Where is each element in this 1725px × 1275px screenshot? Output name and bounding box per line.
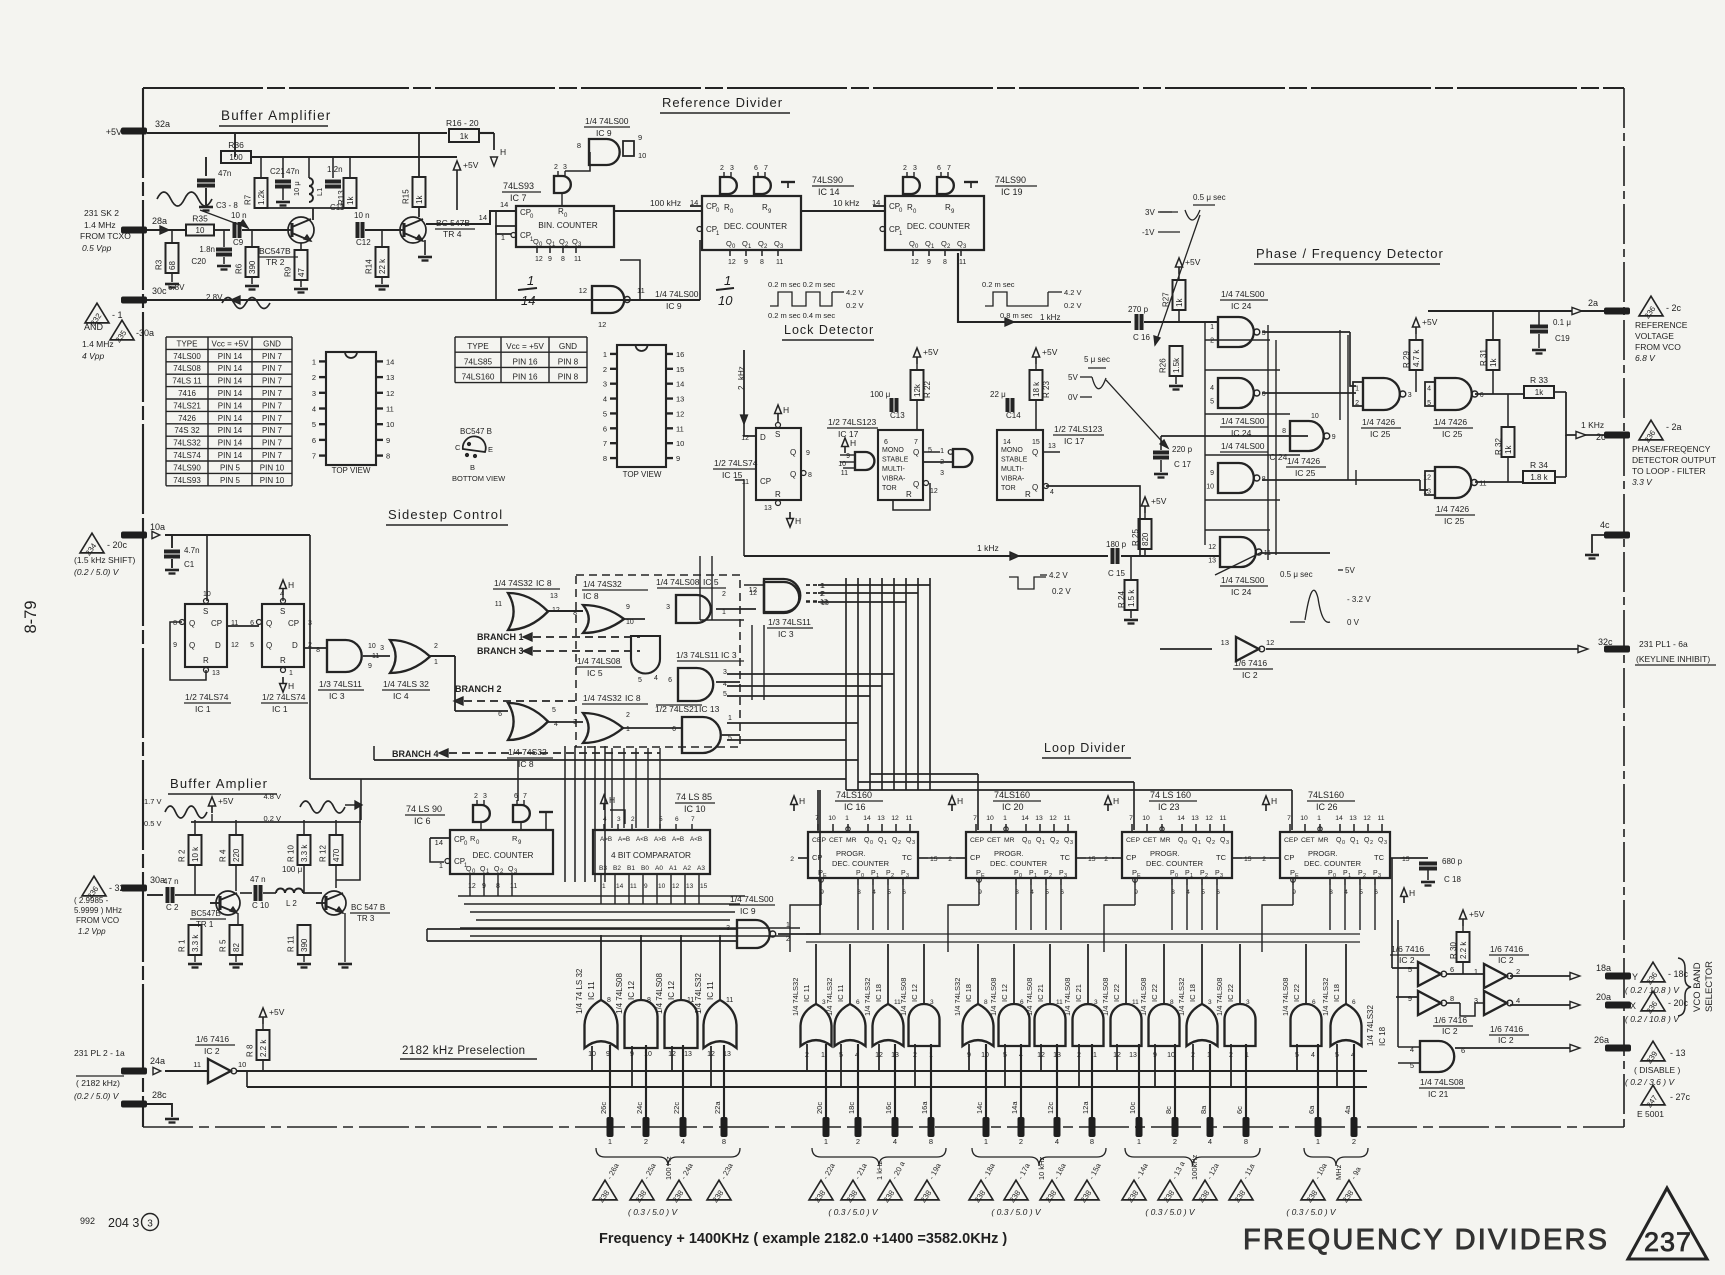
svg-text:IC 8: IC 8 (536, 578, 552, 588)
svg-text:( 0.3 / 5.0 ) V: ( 0.3 / 5.0 ) V (991, 1207, 1041, 1217)
svg-text:PIN 7: PIN 7 (262, 401, 283, 410)
svg-text:11: 11 (637, 286, 645, 295)
svg-text:BRANCH 1: BRANCH 1 (477, 632, 524, 642)
svg-text:180 p: 180 p (1106, 540, 1127, 549)
svg-text:B0: B0 (641, 865, 649, 872)
svg-text:0.5 V: 0.5 V (144, 819, 162, 828)
svg-text:10: 10 (658, 883, 666, 890)
svg-text:Q: Q (913, 480, 919, 489)
svg-text:10 n: 10 n (231, 211, 247, 220)
svg-text:5: 5 (603, 409, 607, 418)
svg-text:8: 8 (1090, 1137, 1094, 1146)
svg-text:VIBRA-: VIBRA- (1001, 476, 1025, 483)
svg-text:A2: A2 (683, 865, 691, 872)
svg-text:TC: TC (1060, 853, 1071, 862)
svg-text:8: 8 (1450, 994, 1454, 1003)
svg-text:7: 7 (914, 439, 918, 446)
svg-text:PIN 5: PIN 5 (220, 463, 241, 472)
svg-text:PIN 14: PIN 14 (218, 401, 243, 410)
svg-text:5.9999 ) MHz: 5.9999 ) MHz (74, 906, 122, 915)
svg-text:(0.2 / 5.0) V: (0.2 / 5.0) V (74, 567, 120, 577)
svg-text:1/6 7416: 1/6 7416 (1391, 944, 1424, 954)
svg-text:15: 15 (1244, 856, 1252, 863)
svg-text:PROGR.: PROGR. (1150, 849, 1180, 858)
svg-text:6: 6 (1262, 391, 1266, 398)
svg-text:74LS160: 74LS160 (462, 373, 495, 382)
svg-text:SELECTOR: SELECTOR (1704, 961, 1715, 1012)
svg-text:PIN 8: PIN 8 (558, 373, 579, 382)
svg-text:8-79: 8-79 (22, 600, 40, 633)
svg-text:74LS160: 74LS160 (1308, 790, 1344, 800)
svg-text:26c: 26c (599, 1102, 608, 1114)
svg-text:BRANCH 4: BRANCH 4 (392, 749, 439, 759)
svg-text:PIN 5: PIN 5 (220, 476, 241, 485)
svg-text:Sidestep Control: Sidestep Control (388, 507, 503, 522)
svg-text:74LS 11: 74LS 11 (172, 377, 202, 386)
svg-text:1: 1 (940, 448, 944, 455)
svg-text:IC 22: IC 22 (1226, 984, 1235, 1002)
svg-text:IC 8: IC 8 (625, 693, 641, 703)
svg-text:IC 11: IC 11 (706, 981, 715, 1000)
svg-text:5: 5 (728, 735, 732, 742)
svg-text:1.4 MHz: 1.4 MHz (82, 339, 114, 349)
svg-text:9: 9 (644, 883, 648, 890)
svg-text:13: 13 (550, 593, 558, 600)
svg-text:11: 11 (776, 259, 783, 266)
svg-text:12: 12 (728, 259, 736, 266)
svg-text:11: 11 (676, 424, 684, 433)
svg-text:11: 11 (386, 405, 394, 414)
svg-text:R 25: R 25 (1131, 529, 1140, 546)
svg-text:Q: Q (1032, 483, 1038, 492)
svg-text:CP: CP (1284, 853, 1294, 862)
svg-text:10: 10 (386, 420, 394, 429)
svg-text:220: 220 (232, 848, 241, 862)
svg-text:1/4 74LS32: 1/4 74LS32 (863, 978, 872, 1016)
svg-text:PIN 14: PIN 14 (218, 414, 243, 423)
svg-text:12: 12 (1049, 815, 1057, 822)
svg-text:7: 7 (312, 452, 316, 461)
svg-text:1.8n: 1.8n (199, 245, 215, 254)
svg-text:PIN 8: PIN 8 (558, 357, 579, 366)
svg-text:PROGR.: PROGR. (1308, 849, 1338, 858)
svg-text:82: 82 (232, 943, 241, 952)
svg-text:18c: 18c (847, 1102, 856, 1114)
svg-text:R16 - 20: R16 - 20 (446, 118, 479, 128)
svg-text:TR 3: TR 3 (357, 914, 375, 923)
svg-text:3: 3 (1220, 873, 1223, 879)
svg-text:Q: Q (266, 641, 272, 650)
svg-text:1: 1 (1093, 1052, 1097, 1059)
svg-text:STABLE: STABLE (882, 457, 909, 464)
svg-text:2: 2 (644, 1137, 648, 1146)
svg-text:8c: 8c (1164, 1106, 1173, 1114)
svg-text:PIN 7: PIN 7 (262, 364, 283, 373)
svg-text:0: 0 (861, 873, 864, 879)
svg-text:1: 1 (602, 883, 606, 890)
svg-text:Lock Detector: Lock Detector (784, 323, 874, 337)
svg-text:11: 11 (959, 259, 966, 266)
svg-text:IC 12: IC 12 (667, 980, 676, 1000)
svg-text:R: R (1025, 490, 1031, 499)
svg-text:5: 5 (723, 691, 727, 698)
svg-text:CEP: CEP (812, 837, 826, 844)
svg-text:A<B: A<B (690, 836, 702, 843)
svg-text:4.2 V: 4.2 V (1049, 571, 1068, 580)
svg-text:28a: 28a (152, 216, 167, 226)
svg-text:2: 2 (626, 712, 630, 719)
svg-text:1/4 74LS00: 1/4 74LS00 (1221, 575, 1265, 585)
svg-text:( 2.9985 -: ( 2.9985 - (74, 896, 109, 905)
svg-text:470: 470 (332, 848, 341, 862)
svg-text:9: 9 (173, 642, 177, 649)
svg-text:CP: CP (288, 619, 299, 628)
svg-text:4: 4 (1050, 489, 1054, 496)
svg-text:Buffer Amplifier: Buffer Amplifier (221, 108, 332, 123)
svg-text:0: 0 (1333, 873, 1336, 879)
svg-text:9: 9 (1332, 434, 1336, 441)
svg-text:3: 3 (906, 873, 909, 879)
svg-text:7: 7 (947, 165, 951, 172)
svg-text:14: 14 (676, 380, 684, 389)
svg-text:R 22: R 22 (923, 381, 932, 398)
svg-text:1: 1 (821, 583, 825, 590)
svg-text:A>B: A>B (600, 836, 612, 843)
svg-text:3: 3 (1064, 873, 1067, 879)
svg-text:H: H (1271, 796, 1277, 806)
svg-text:CEP: CEP (1284, 837, 1298, 844)
svg-text:12: 12 (676, 409, 684, 418)
svg-text:MONO: MONO (1001, 447, 1023, 454)
svg-text:2: 2 (1210, 338, 1214, 345)
svg-text:74LS90: 74LS90 (812, 175, 843, 185)
svg-text:1: 1 (1316, 1137, 1320, 1146)
svg-text:2: 2 (891, 873, 894, 879)
svg-text:-30a: -30a (136, 328, 154, 338)
svg-text:11: 11 (193, 1060, 201, 1069)
svg-text:1/4 74LS08: 1/4 74LS08 (1025, 978, 1034, 1016)
svg-text:PIN 14: PIN 14 (218, 352, 243, 361)
svg-text:C20: C20 (191, 257, 206, 266)
svg-text:22c: 22c (672, 1102, 681, 1114)
svg-text:S: S (775, 430, 780, 439)
svg-text:1: 1 (1042, 840, 1045, 846)
svg-text:12: 12 (231, 642, 239, 649)
svg-text:2: 2 (898, 840, 901, 846)
svg-text:6: 6 (672, 726, 676, 733)
svg-text:10: 10 (238, 1060, 246, 1069)
svg-text:4: 4 (312, 405, 316, 414)
svg-text:R 34: R 34 (1530, 460, 1548, 470)
svg-text:BIN. COUNTER: BIN. COUNTER (538, 220, 597, 230)
svg-text:1.2k: 1.2k (257, 189, 266, 205)
svg-text:R: R (203, 656, 209, 665)
svg-text:IC 4: IC 4 (393, 691, 409, 701)
svg-text:12: 12 (1205, 815, 1213, 822)
svg-text:- 20c: - 20c (107, 540, 128, 550)
svg-text:5: 5 (638, 677, 642, 684)
svg-text:1: 1 (1210, 324, 1214, 331)
svg-text:IC 3: IC 3 (329, 691, 345, 701)
svg-text:1/4 74LS00: 1/4 74LS00 (585, 116, 629, 126)
svg-text:0.2 V: 0.2 V (1064, 301, 1082, 310)
svg-text:47n: 47n (286, 167, 299, 176)
svg-text:PIN 14: PIN 14 (218, 439, 243, 448)
svg-text:IC 26: IC 26 (1316, 802, 1338, 812)
svg-text:- 13: - 13 (1670, 1048, 1686, 1058)
svg-text:3: 3 (563, 164, 567, 171)
svg-text:DEC. COUNTER: DEC. COUNTER (832, 859, 890, 868)
svg-text:+5V: +5V (218, 796, 234, 806)
svg-text:6: 6 (1312, 999, 1316, 1006)
svg-text:TOR: TOR (1001, 485, 1016, 492)
svg-text:7426: 7426 (178, 414, 196, 423)
svg-text:+5V: +5V (106, 127, 122, 137)
svg-text:BOTTOM VIEW: BOTTOM VIEW (452, 474, 506, 483)
svg-text:74 LS 160: 74 LS 160 (1150, 790, 1191, 800)
svg-text:1/6 7416: 1/6 7416 (196, 1034, 229, 1044)
svg-text:12: 12 (749, 590, 757, 597)
svg-text:237: 237 (1644, 1227, 1692, 1257)
svg-text:DEC. COUNTER: DEC. COUNTER (1146, 859, 1204, 868)
svg-text:Phase / Frequency Detector: Phase / Frequency Detector (1256, 246, 1444, 261)
svg-text:4c: 4c (1600, 520, 1610, 530)
svg-text:Q: Q (790, 470, 796, 479)
svg-text:TC: TC (902, 853, 913, 862)
svg-text:1: 1 (884, 840, 887, 846)
svg-text:5V: 5V (1345, 566, 1355, 575)
svg-text:IC 18: IC 18 (874, 984, 883, 1002)
svg-text:PHASE/FREQENCY: PHASE/FREQENCY (1632, 444, 1711, 454)
svg-text:6: 6 (1450, 965, 1454, 974)
svg-text:28c: 28c (152, 1090, 167, 1100)
svg-text:+5V: +5V (269, 1007, 285, 1017)
svg-text:1: 1 (984, 1137, 988, 1146)
svg-text:11: 11 (510, 883, 517, 890)
svg-text:R35: R35 (192, 214, 208, 224)
svg-text:(KEYLINE INHIBIT): (KEYLINE INHIBIT) (1636, 654, 1710, 664)
svg-text:VOLTAGE: VOLTAGE (1635, 331, 1674, 341)
svg-text:13: 13 (821, 600, 829, 607)
svg-text:0: 0 (870, 840, 873, 846)
svg-text:6a: 6a (1307, 1105, 1316, 1114)
svg-text:R 4: R 4 (219, 849, 228, 862)
svg-text:30c: 30c (152, 286, 167, 296)
svg-text:8: 8 (1170, 999, 1174, 1006)
svg-text:9: 9 (846, 453, 850, 460)
svg-text:E: E (1295, 873, 1299, 879)
svg-text:1/4 74LS08: 1/4 74LS08 (1215, 978, 1224, 1016)
svg-text:16a: 16a (920, 1101, 929, 1114)
svg-text:R 5: R 5 (219, 939, 228, 952)
svg-text:IC 17: IC 17 (1064, 436, 1085, 446)
svg-text:1/4 74LS32: 1/4 74LS32 (953, 978, 962, 1016)
svg-text:100 Hz: 100 Hz (664, 1156, 673, 1180)
svg-text:8: 8 (561, 256, 565, 263)
svg-text:IC 5: IC 5 (587, 668, 603, 678)
svg-text:74LS32: 74LS32 (173, 439, 201, 448)
svg-text:5: 5 (312, 420, 316, 429)
svg-text:1: 1 (1356, 840, 1359, 846)
svg-text:Q: Q (790, 448, 796, 457)
svg-text:1/6 7416: 1/6 7416 (1490, 944, 1523, 954)
svg-text:Loop Divider: Loop Divider (1044, 741, 1126, 755)
svg-text:13: 13 (1208, 558, 1216, 565)
svg-text:0.2 V: 0.2 V (1052, 587, 1071, 596)
svg-text:1.7 V: 1.7 V (144, 797, 162, 806)
svg-text:A0: A0 (655, 865, 663, 872)
svg-text:2: 2 (1173, 1137, 1177, 1146)
svg-text:1/3 74LS11: 1/3 74LS11 (319, 679, 362, 689)
svg-text:5: 5 (250, 642, 254, 649)
svg-text:6: 6 (754, 165, 758, 172)
svg-text:0: 0 (1342, 840, 1345, 846)
svg-text:R: R (280, 656, 286, 665)
svg-text:7: 7 (973, 815, 977, 822)
svg-text:15: 15 (1032, 439, 1040, 446)
svg-text:B: B (470, 463, 475, 472)
svg-text:0.2 m sec 0.2 m sec: 0.2 m sec 0.2 m sec (768, 280, 835, 289)
svg-text:12: 12 (672, 883, 680, 890)
svg-text:1/4 74LS32: 1/4 74LS32 (791, 978, 800, 1016)
svg-text:CET: CET (987, 837, 1001, 844)
svg-text:BC547B: BC547B (191, 909, 221, 918)
svg-text:1.5k: 1.5k (1172, 357, 1181, 373)
svg-text:R 32: R 32 (1494, 438, 1503, 455)
svg-text:74LS21: 74LS21 (173, 401, 201, 410)
svg-text:1.4 MHz: 1.4 MHz (84, 220, 116, 230)
svg-text:7: 7 (523, 793, 527, 800)
svg-text:MR: MR (846, 837, 857, 844)
svg-text:13: 13 (676, 395, 684, 404)
svg-text:CP: CP (1126, 853, 1136, 862)
svg-text:1/4 74LS08: 1/4 74LS08 (1101, 978, 1110, 1016)
svg-text:( 0.2 / 10.8 ) V: ( 0.2 / 10.8 ) V (1625, 985, 1680, 995)
svg-text:1: 1 (1003, 815, 1007, 822)
svg-text:680 p: 680 p (1442, 857, 1463, 866)
svg-text:1: 1 (527, 273, 534, 288)
svg-text:2: 2 (1104, 856, 1108, 863)
svg-text:3: 3 (1246, 999, 1250, 1006)
svg-text:0.2 m sec: 0.2 m sec (982, 280, 1015, 289)
svg-text:C1: C1 (184, 560, 195, 569)
svg-text:GND: GND (263, 339, 281, 348)
svg-text:0 V: 0 V (1347, 618, 1360, 627)
svg-text:R15: R15 (402, 189, 411, 204)
svg-text:IC 18: IC 18 (1378, 1026, 1387, 1046)
svg-text:C14: C14 (1006, 411, 1021, 420)
svg-text:CEP: CEP (1126, 837, 1140, 844)
svg-text:IC 22: IC 22 (1150, 984, 1159, 1002)
svg-text:9: 9 (744, 259, 748, 266)
svg-text:204 3: 204 3 (108, 1216, 139, 1230)
svg-text:+5V: +5V (923, 347, 939, 357)
svg-text:1/4 74LS08: 1/4 74LS08 (615, 973, 624, 1014)
svg-text:1/4 74LS08: 1/4 74LS08 (1139, 978, 1148, 1016)
svg-text:IC 2: IC 2 (1442, 1026, 1458, 1036)
svg-text:CET: CET (1143, 837, 1157, 844)
svg-text:IC 25: IC 25 (1295, 468, 1316, 478)
svg-text:1/4 74LS00: 1/4 74LS00 (1221, 441, 1265, 451)
svg-text:PIN 14: PIN 14 (218, 377, 243, 386)
svg-text:1/4 7426: 1/4 7426 (1436, 504, 1469, 514)
svg-text:E 5001: E 5001 (1637, 1109, 1664, 1119)
svg-text:STABLE: STABLE (1001, 457, 1028, 464)
svg-text:(0.2 / 5.0) V: (0.2 / 5.0) V (74, 1091, 120, 1101)
svg-text:- 2c: - 2c (1666, 303, 1682, 313)
svg-text:1/4 74LS08: 1/4 74LS08 (1281, 978, 1290, 1016)
svg-text:Buffer Amplier: Buffer Amplier (170, 776, 268, 791)
svg-text:IC 25: IC 25 (1370, 429, 1391, 439)
svg-text:1: 1 (722, 609, 726, 616)
svg-text:1/4 74LS00: 1/4 74LS00 (730, 894, 774, 904)
svg-text:IC 2: IC 2 (204, 1046, 220, 1056)
svg-text:1/4 7426: 1/4 7426 (1362, 417, 1395, 427)
svg-text:0.5 Vpp: 0.5 Vpp (82, 243, 112, 253)
svg-text:14: 14 (1003, 439, 1011, 446)
svg-text:4: 4 (603, 395, 607, 404)
svg-text:12: 12 (598, 320, 606, 329)
svg-text:1/4 74LS08: 1/4 74LS08 (899, 978, 908, 1016)
svg-text:IC 12: IC 12 (910, 984, 919, 1002)
svg-text:7: 7 (764, 165, 768, 172)
svg-text:11: 11 (630, 883, 637, 890)
svg-text:13: 13 (877, 815, 885, 822)
svg-text:1: 1 (289, 670, 293, 677)
svg-text:4: 4 (1055, 1137, 1059, 1146)
svg-text:7416: 7416 (178, 389, 196, 398)
svg-text:( DISABLE ): ( DISABLE ) (1634, 1065, 1680, 1075)
svg-text:13: 13 (1349, 815, 1357, 822)
svg-text:R 24: R 24 (1117, 591, 1126, 608)
svg-text:Q: Q (189, 619, 195, 628)
svg-text:16: 16 (676, 350, 684, 359)
svg-text:CET: CET (1301, 837, 1315, 844)
svg-text:16c: 16c (884, 1102, 893, 1114)
svg-text:3: 3 (1378, 873, 1381, 879)
svg-text:13: 13 (686, 883, 694, 890)
svg-text:10 k: 10 k (191, 846, 200, 862)
svg-text:R 8: R 8 (246, 1044, 255, 1057)
svg-text:0.2 V: 0.2 V (846, 301, 864, 310)
svg-text:13: 13 (1221, 638, 1229, 647)
svg-text:TOP VIEW: TOP VIEW (623, 470, 662, 479)
svg-text:TR 4: TR 4 (443, 229, 462, 239)
svg-text:1/4 74LS32: 1/4 74LS32 (694, 973, 703, 1014)
svg-text:IC 11: IC 11 (587, 981, 596, 1000)
svg-text:C 18: C 18 (1444, 875, 1461, 884)
svg-text:14c: 14c (975, 1102, 984, 1114)
svg-text:IC 15: IC 15 (722, 470, 743, 480)
svg-text:22a: 22a (713, 1101, 722, 1114)
svg-text:12: 12 (579, 286, 587, 295)
svg-text:3.3 V: 3.3 V (1632, 477, 1653, 487)
svg-text:1/6 7416: 1/6 7416 (1234, 658, 1267, 668)
svg-text:9: 9 (368, 663, 372, 670)
svg-text:IC 2: IC 2 (1498, 1035, 1514, 1045)
svg-text:C: C (455, 443, 461, 452)
svg-text:IC 2: IC 2 (1498, 955, 1514, 965)
svg-text:( 0.3 / 5.0 ) V: ( 0.3 / 5.0 ) V (1286, 1207, 1336, 1217)
svg-text:R 2: R 2 (178, 849, 187, 862)
svg-text:2: 2 (821, 591, 825, 598)
svg-text:R9: R9 (284, 266, 293, 277)
svg-text:9: 9 (676, 454, 680, 463)
svg-text:IC 9: IC 9 (740, 906, 756, 916)
svg-text:Reference Divider: Reference Divider (662, 95, 783, 110)
svg-text:1/4 74S32: 1/4 74S32 (583, 579, 622, 589)
svg-text:1/4 74LS00: 1/4 74LS00 (1221, 289, 1265, 299)
